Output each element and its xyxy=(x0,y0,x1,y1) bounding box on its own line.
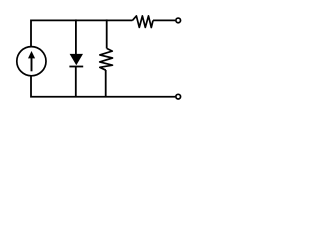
terminal bottom (open circle) xyxy=(176,94,181,99)
resistor Rsh (shunt, vertical zigzag) xyxy=(100,48,113,70)
wire shunt branch upper xyxy=(106,19,108,48)
wire bottom rail with left corner xyxy=(31,76,175,97)
wire diode branch upper xyxy=(75,19,77,54)
wire diode branch lower xyxy=(75,67,77,97)
wire from Rs to top terminal xyxy=(153,19,175,21)
diode D (pointing down) xyxy=(69,54,83,67)
terminal top (open circle) xyxy=(176,18,181,23)
wire shunt branch lower xyxy=(105,70,107,97)
current source (photocurrent, arrow up) xyxy=(17,47,46,76)
wire top rail with left corner xyxy=(31,20,132,46)
resistor Rs (series, horizontal zigzag) xyxy=(132,16,153,28)
